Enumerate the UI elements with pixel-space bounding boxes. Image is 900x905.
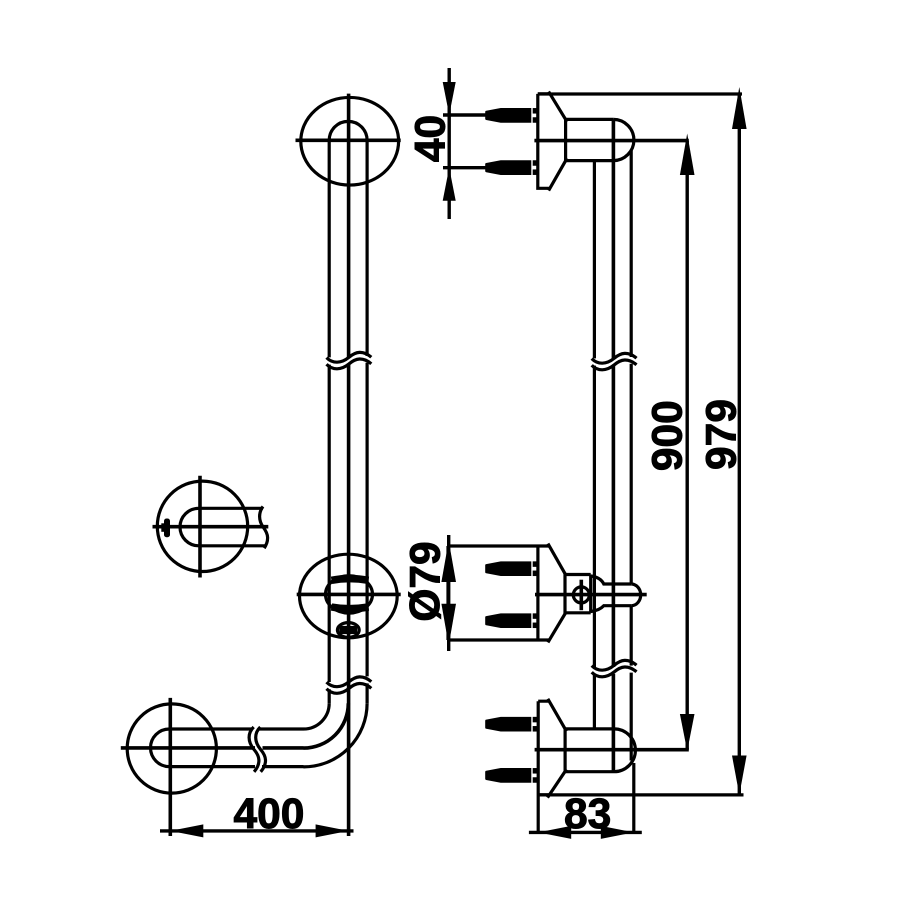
top flange ring [301,97,399,185]
dim Ø79 arrow up [441,541,456,582]
top mount plate outline [538,92,567,191]
dim 40 upper extension [443,113,486,116]
horizontal tube break B3 (vertical squiggle pair) [249,727,265,772]
elbow outer arc [304,703,368,767]
detail tube top edge [199,507,263,510]
mid mount cover top chamfer [548,544,566,576]
svg-text:400: 400 [233,791,304,838]
bottom mount plate left edge / 83-dim extension [537,701,540,833]
svg-text:83: 83 [564,791,611,838]
horizontal tube centerline segments [121,746,304,750]
dim 40 arrow up [443,168,456,201]
svg-text:Ø79: Ø79 [403,541,450,621]
dim 40 lower extension [443,166,486,169]
collar bottom fillet [591,606,632,612]
dim 979 line [738,94,741,795]
elbow centerline arc [304,703,349,748]
mid mount bolt upper [485,561,538,576]
vertical tube left edge segments [328,140,331,703]
dim 900 arrow down [680,714,695,751]
vertical tube centerline upper segment [347,94,351,358]
dim 900 arrow up [680,134,695,176]
top mount bolt lower [485,160,538,175]
top mount cap arc [613,119,634,160]
detail tube cap arc [180,508,199,546]
bottom mount cap bottom line [565,770,614,773]
dim 979 arrow down [732,756,747,795]
top mount centerline / 900-dim top extension [534,139,688,143]
mid mount clamp box bottom [565,611,591,614]
vertical tube right edge segments [366,140,369,703]
vertical tube top cap arc [329,121,367,140]
mid mount clamp box right [589,575,592,613]
svg-text:40: 40 [408,115,455,162]
top mount cap bottom line [566,159,614,162]
detail horizontal centerline [153,525,269,529]
horizontal tube bottom edge segments [169,765,303,768]
mid mount cover bottom chamfer [548,612,566,642]
detail pin mark [161,519,170,538]
mid mount cover top edge / dim extension [448,544,549,547]
mid mount clamp box top [565,573,591,576]
mid flange ring [300,554,398,638]
tube break B1 (upper squiggle pair) [327,352,372,368]
tube break B2 (above elbow) [327,677,372,693]
vertical tube centerline lower segment (extends to 400-dim line) [347,364,351,836]
979-dim top extension line [538,92,742,95]
bottom mount cap arc [614,729,635,772]
dim 979 arrow up [732,87,747,129]
screw oval below boss [337,623,359,638]
dim 83 arrow left [538,826,571,839]
mid mount clamp neck vertical [563,573,566,614]
bottom-left flange vertical centerline (extends to 400-dim) [169,698,173,836]
mid flange horizontal centerline [297,593,401,597]
mid mount cover left edge [446,546,449,640]
mid mount centerline [535,593,647,597]
mid mount bolt lower [485,613,538,628]
side tube left edge segments [593,161,596,729]
dim 400 line [160,829,354,832]
dim 83 arrow right [601,826,634,839]
boss clamp band bottom [332,607,369,609]
mid mount cover bottom edge / dim extension [448,638,549,641]
mid flange boss ring [326,576,373,613]
elbow inner arc [304,703,330,729]
bottom mount plate outline [538,699,566,798]
bottom-left flange ring [127,704,216,793]
mid mount screw slot [579,580,583,611]
svg-text:979: 979 [698,399,745,470]
collar bump arc [631,584,641,606]
side tube break B4 [592,353,637,369]
detail vertical centerline [198,476,202,578]
horizontal tube left cap arc [151,729,170,767]
83-dim right extension line [632,763,635,833]
dim 83 line [529,831,642,834]
dim 40 line [448,68,451,219]
bottom mount cap top line [565,727,614,730]
collar top fillet [591,576,632,584]
dim 40 arrow down [443,82,456,115]
detail flange ring [157,481,247,571]
screw slot [339,626,357,634]
mid mount screw circle [573,587,589,603]
boss clamp band top [332,579,369,581]
bottom mount bolt lower [485,768,538,783]
side tube right edge segments [630,150,633,760]
horizontal tube top edge segments [169,727,303,730]
top flange horizontal centerline [296,139,401,143]
dim 400 arrow left [170,824,203,837]
detail tube broken end squiggle [260,507,268,549]
top mount cap top line [566,118,614,121]
dim Ø79 line [447,535,450,651]
svg-text:900: 900 [644,400,691,471]
side tube centerline segments [612,119,616,771]
bottom mount bolt upper [485,717,538,732]
dim 900 line [686,141,689,750]
side tube break B5 [592,660,637,676]
mid mount plate line [536,546,539,640]
dim Ø79 arrow down [441,604,456,646]
979-dim bottom extension line [538,793,743,796]
bottom mount centerline / 900-dim bottom extension [535,748,689,752]
detail tube bottom edge [199,544,265,547]
dim 400 arrow right [316,824,349,837]
